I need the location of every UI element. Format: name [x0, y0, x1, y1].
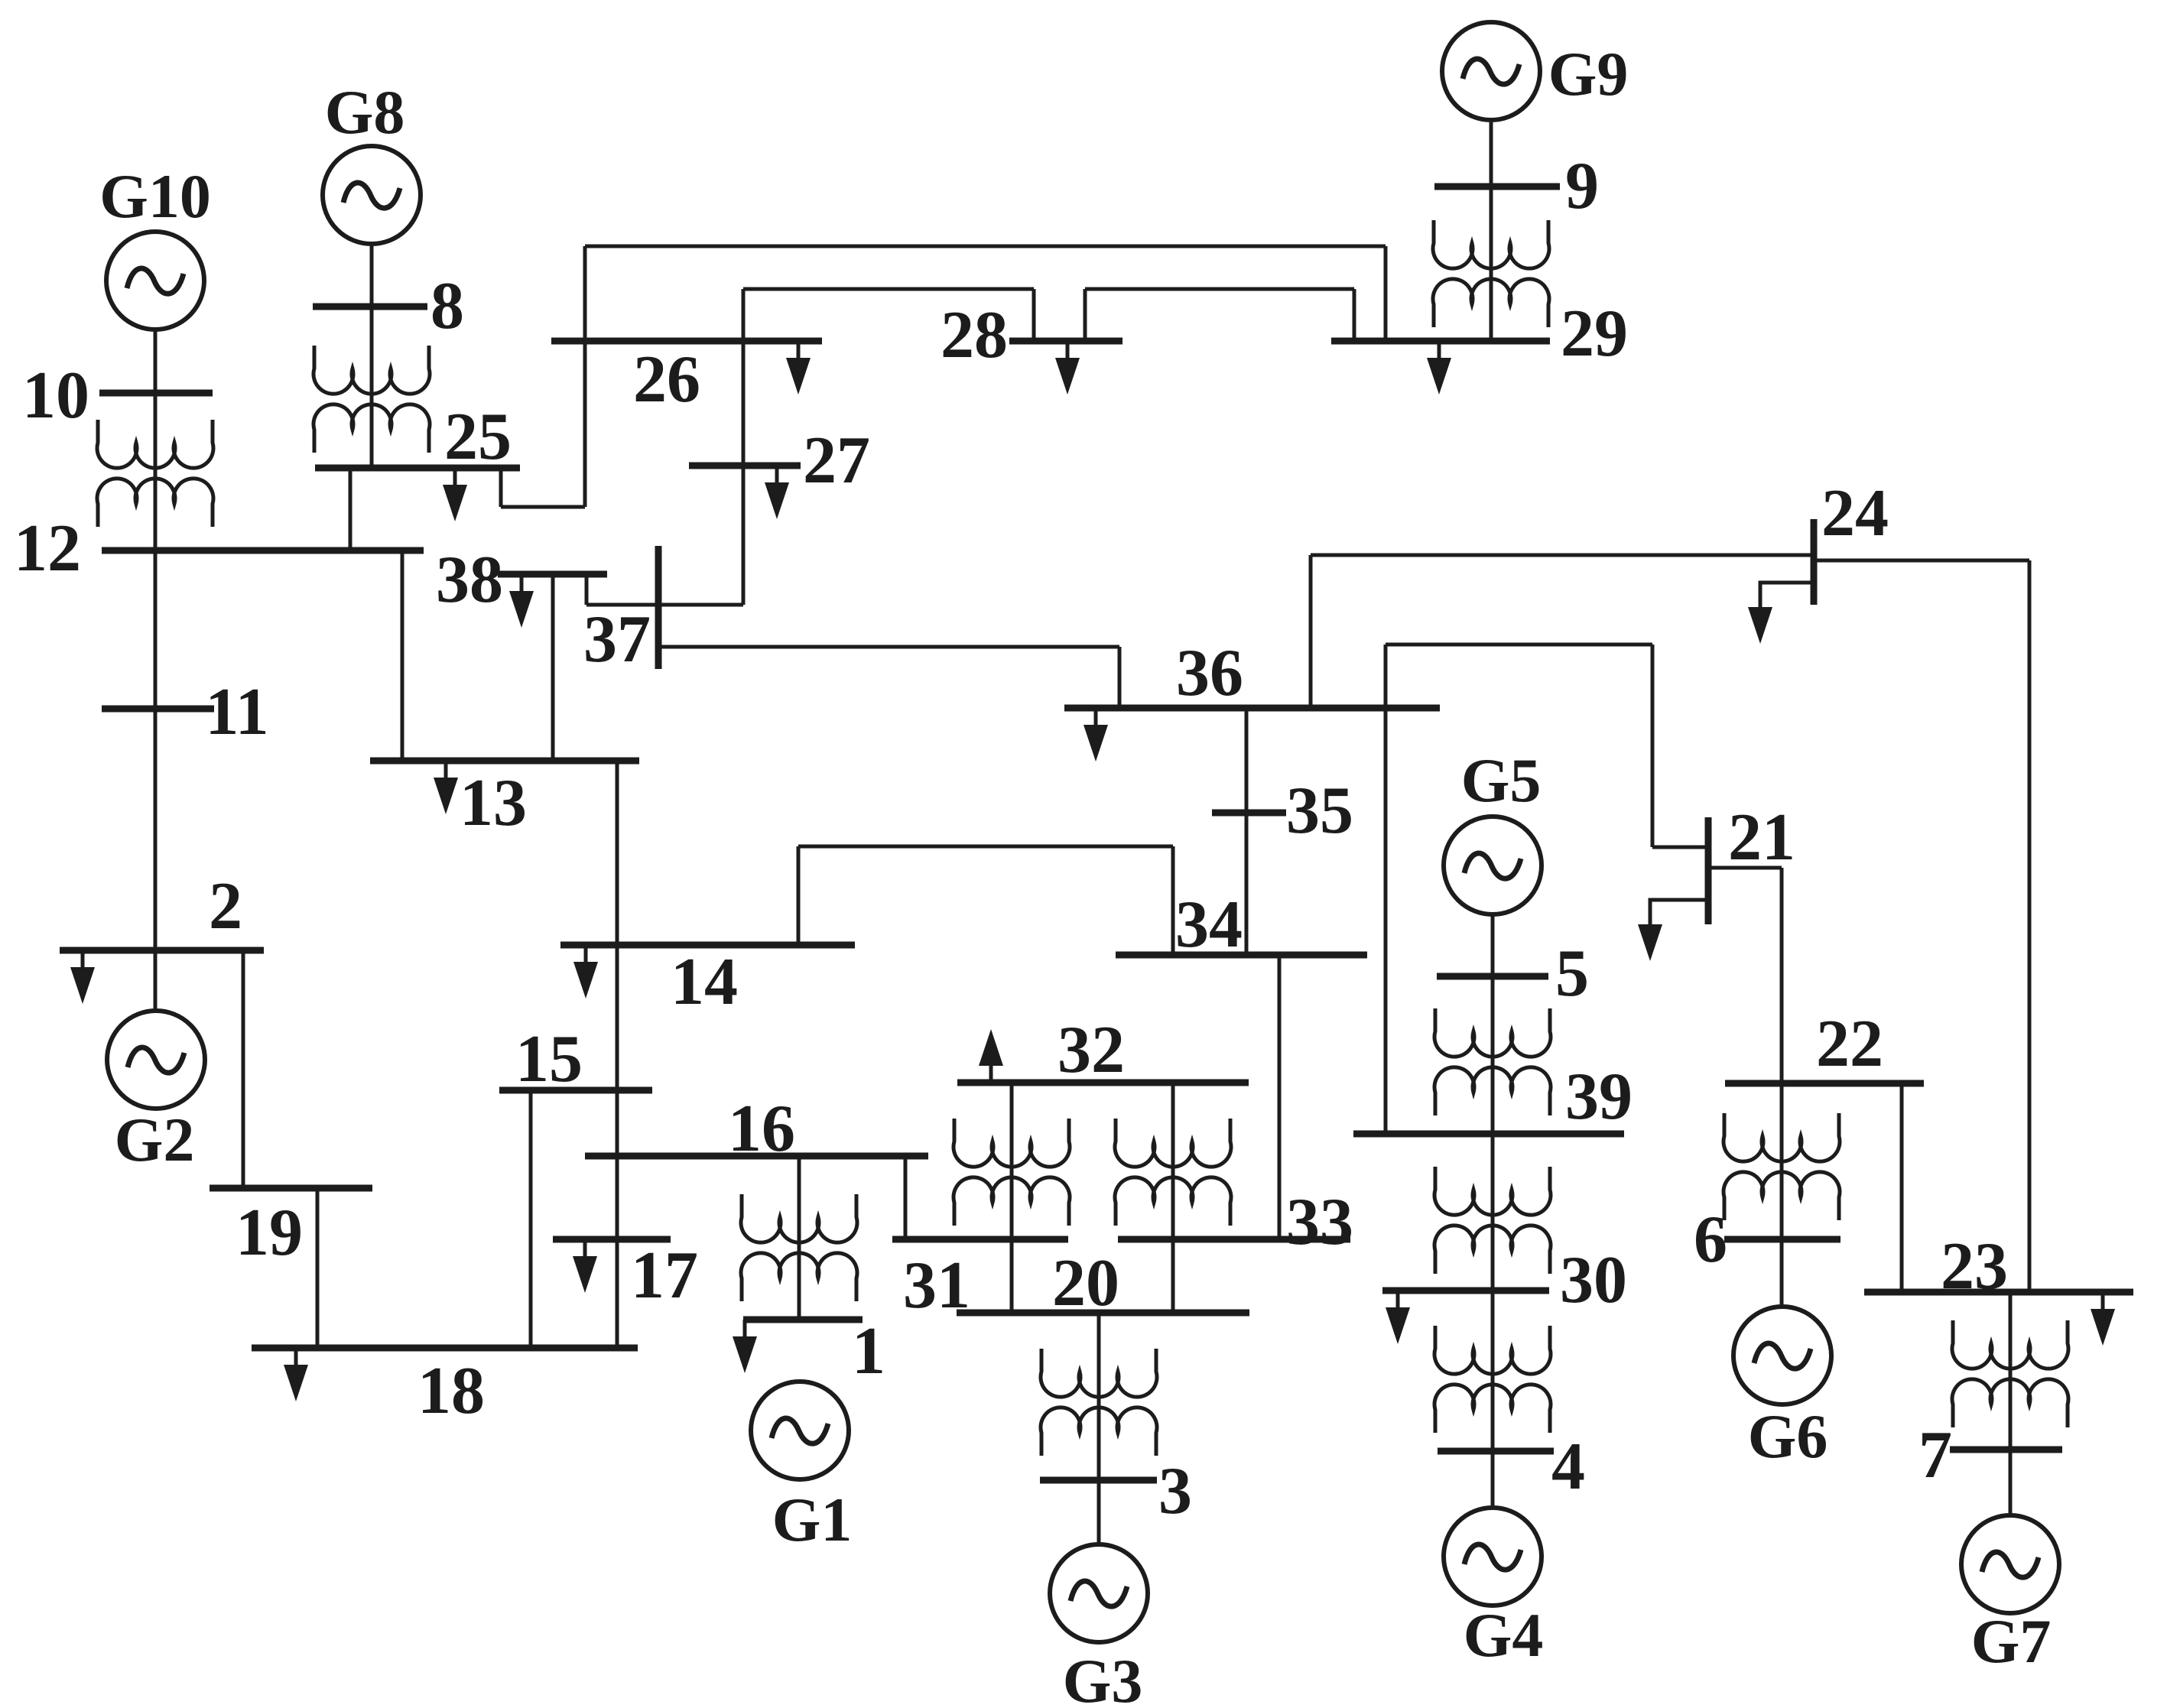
- svg-text:14: 14: [671, 945, 738, 1019]
- svg-text:G2: G2: [115, 1105, 195, 1174]
- svg-text:G4: G4: [1464, 1600, 1544, 1670]
- svg-text:20: 20: [1052, 1246, 1119, 1320]
- svg-text:16: 16: [728, 1092, 795, 1166]
- svg-text:26: 26: [633, 343, 700, 417]
- svg-text:G6: G6: [1748, 1401, 1828, 1471]
- svg-text:36: 36: [1176, 636, 1243, 710]
- svg-text:13: 13: [460, 766, 527, 840]
- svg-text:32: 32: [1058, 1013, 1125, 1087]
- svg-text:1: 1: [852, 1314, 885, 1388]
- svg-text:G5: G5: [1461, 745, 1542, 815]
- svg-text:35: 35: [1286, 774, 1353, 848]
- svg-text:18: 18: [417, 1354, 485, 1428]
- svg-text:G10: G10: [99, 161, 211, 231]
- svg-text:7: 7: [1918, 1418, 1952, 1492]
- svg-text:24: 24: [1821, 476, 1889, 550]
- svg-text:28: 28: [941, 298, 1008, 372]
- svg-text:12: 12: [14, 511, 81, 586]
- svg-text:30: 30: [1560, 1243, 1627, 1317]
- svg-text:2: 2: [209, 869, 242, 943]
- svg-text:33: 33: [1286, 1185, 1353, 1259]
- svg-text:27: 27: [803, 424, 870, 498]
- svg-text:G7: G7: [1971, 1606, 2052, 1676]
- svg-text:8: 8: [430, 269, 464, 343]
- svg-text:25: 25: [444, 400, 512, 474]
- svg-text:17: 17: [631, 1239, 698, 1313]
- svg-text:23: 23: [1941, 1229, 2008, 1304]
- svg-text:5: 5: [1555, 937, 1589, 1011]
- svg-text:3: 3: [1158, 1454, 1192, 1528]
- svg-text:19: 19: [236, 1196, 303, 1270]
- svg-text:G3: G3: [1063, 1646, 1143, 1708]
- svg-text:11: 11: [205, 675, 268, 749]
- svg-text:37: 37: [583, 602, 651, 677]
- svg-text:31: 31: [903, 1249, 970, 1323]
- svg-text:34: 34: [1175, 888, 1243, 962]
- svg-text:15: 15: [515, 1022, 583, 1096]
- svg-text:G9: G9: [1548, 39, 1629, 109]
- svg-text:10: 10: [22, 359, 89, 433]
- svg-text:39: 39: [1565, 1060, 1633, 1134]
- svg-text:G8: G8: [325, 77, 405, 147]
- svg-text:38: 38: [436, 543, 503, 617]
- svg-text:29: 29: [1561, 297, 1628, 371]
- svg-text:4: 4: [1551, 1430, 1585, 1504]
- svg-text:9: 9: [1565, 149, 1599, 223]
- svg-text:22: 22: [1816, 1007, 1883, 1081]
- svg-text:21: 21: [1728, 800, 1795, 875]
- svg-text:G1: G1: [772, 1485, 853, 1554]
- svg-text:6: 6: [1694, 1203, 1727, 1277]
